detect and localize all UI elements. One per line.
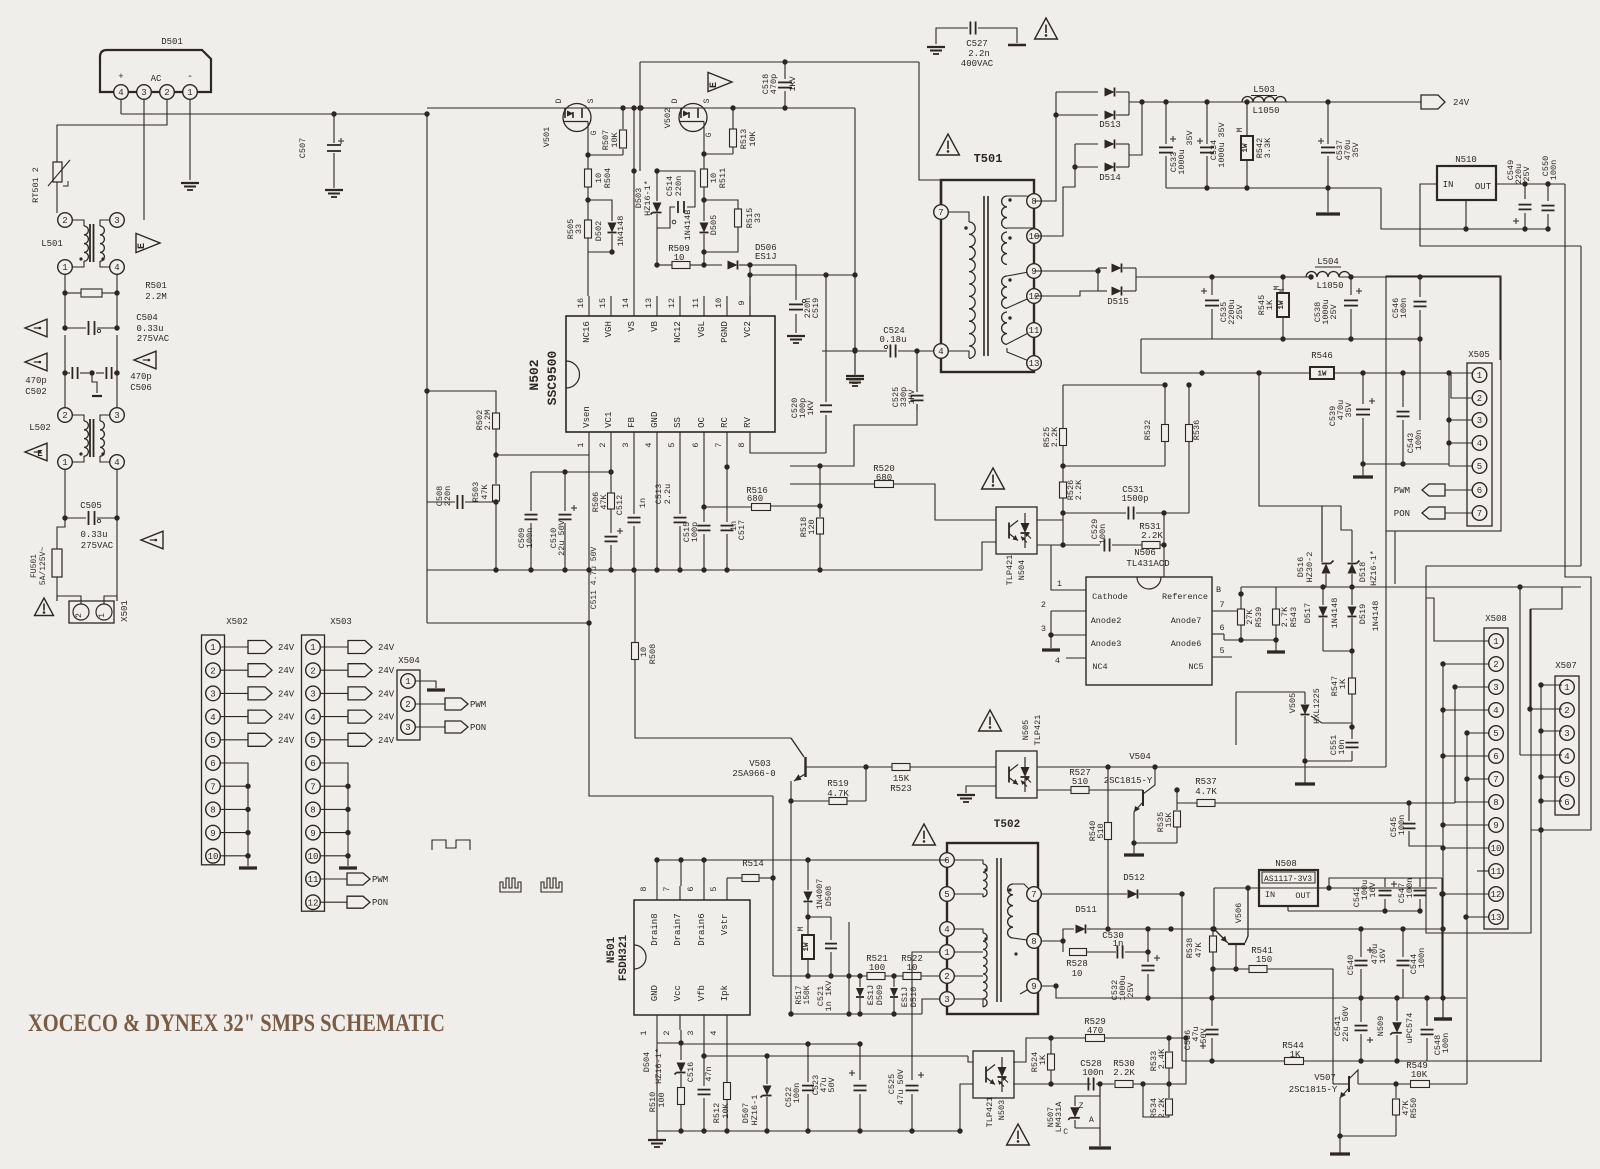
pin 7 [934, 205, 949, 220]
wire RV pin [750, 447, 826, 453]
wire pin4 [1449, 442, 1472, 444]
pin 16 NC16 [588, 296, 590, 316]
svg-text:5: 5 [667, 442, 677, 447]
wire [828, 973, 833, 978]
wire t502 pin9 [1041, 986, 1212, 998]
wire secondary gnd bus [1212, 338, 1420, 340]
svg-text:HZ16-1: HZ16-1 [750, 1095, 760, 1126]
svg-text:S: S [587, 98, 596, 103]
wire [56, 182, 58, 213]
svg-text:47K: 47K [480, 483, 490, 499]
svg-text:R528: R528 [1066, 959, 1088, 969]
svg-text:VGL: VGL [697, 321, 707, 337]
svg-text:5: 5 [1477, 462, 1482, 472]
warning triangle [982, 468, 1005, 489]
svg-text:G: G [590, 130, 599, 135]
svg-text:C519: C519 [811, 298, 821, 318]
wire pin13 [1466, 916, 1489, 918]
svg-text:2: 2 [405, 700, 410, 710]
pin 6 [940, 853, 955, 868]
ground bar [1316, 212, 1340, 215]
pin 15 VGH [610, 296, 612, 316]
pin 14 VS [633, 296, 635, 316]
svg-text:+: + [118, 72, 123, 82]
wire C525 return [790, 404, 917, 466]
pin 7 RC [726, 432, 728, 447]
svg-text:C502: C502 [25, 387, 47, 397]
pin 12 [1027, 289, 1042, 304]
svg-text:25V: 25V [1235, 303, 1245, 319]
svg-text:T501: T501 [974, 152, 1003, 166]
svg-text:10: 10 [1491, 844, 1502, 854]
svg-text:35V: 35V [1344, 401, 1354, 417]
svg-text:PON: PON [1394, 509, 1410, 519]
svg-text:275VAC: 275VAC [81, 541, 114, 551]
wire [116, 518, 118, 601]
svg-text:1n 1KV: 1n 1KV [824, 980, 834, 1012]
svg-text:X508: X508 [1485, 614, 1507, 624]
svg-text:2: 2 [1564, 706, 1569, 716]
wire emitter column [790, 781, 792, 1014]
pin 5 [940, 887, 955, 902]
pin 9 [1027, 264, 1042, 279]
svg-text:1W: 1W [1278, 300, 1286, 310]
wire drain bus [657, 859, 947, 861]
svg-text:100n: 100n [1082, 1068, 1104, 1078]
svg-text:TL431ACD: TL431ACD [1126, 559, 1169, 569]
svg-text:2: 2 [1477, 394, 1482, 404]
pin 4 [940, 922, 955, 937]
svg-text:2: 2 [210, 666, 215, 676]
svg-text:8: 8 [310, 806, 315, 816]
svg-text:XOCECO & DYNEX 32" SMPS SCHEMA: XOCECO & DYNEX 32" SMPS SCHEMATIC [28, 1010, 445, 1037]
svg-text:2.2M: 2.2M [483, 410, 493, 430]
svg-text:N504: N504 [1017, 560, 1027, 580]
svg-text:VB: VB [650, 321, 660, 332]
svg-text:N510: N510 [1455, 155, 1477, 165]
svg-text:3: 3 [310, 690, 315, 700]
svg-text:1: 1 [576, 442, 586, 447]
svg-text:C512: C512 [615, 495, 625, 515]
ground bar [1330, 1152, 1350, 1155]
warning triangle [25, 319, 47, 337]
svg-text:33: 33 [574, 224, 584, 234]
svg-text:5: 5 [1493, 729, 1498, 739]
svg-text:R539: R539 [1254, 607, 1264, 627]
wire [143, 218, 145, 220]
svg-text:9: 9 [737, 300, 747, 305]
svg-text:IN: IN [1443, 180, 1454, 190]
svg-text:25V: 25V [1522, 165, 1532, 181]
svg-text:2: 2 [598, 442, 608, 447]
svg-text:470p: 470p [25, 376, 47, 386]
svg-text:4: 4 [644, 442, 654, 447]
svg-text:5: 5 [944, 890, 949, 900]
svg-text:VGH: VGH [604, 321, 614, 337]
svg-text:1W: 1W [803, 942, 811, 952]
svg-text:7: 7 [1031, 890, 1036, 900]
ground [957, 794, 975, 796]
svg-text:2: 2 [164, 88, 169, 98]
svg-text:G: G [705, 132, 714, 137]
wire [634, 570, 636, 584]
wire [1164, 512, 1189, 514]
warning triangle [937, 134, 960, 155]
svg-text:V505: V505 [1288, 693, 1298, 713]
wire [791, 1013, 922, 1015]
svg-text:VC2: VC2 [743, 321, 753, 337]
wire [1520, 754, 1562, 756]
pin 4 [934, 344, 949, 359]
wire VC1 [531, 447, 611, 472]
svg-text:10: 10 [1072, 969, 1083, 979]
pin 2 [1051, 610, 1086, 612]
wire AC line [121, 113, 427, 115]
svg-text:35V: 35V [1185, 129, 1195, 145]
wire pin2 x507 [1530, 708, 1562, 710]
svg-text:6: 6 [1493, 752, 1498, 762]
svg-text:4: 4 [114, 458, 119, 468]
svg-text:7: 7 [662, 886, 672, 891]
svg-text:Vfb: Vfb [697, 985, 707, 1001]
24V tag [1421, 95, 1445, 109]
svg-text:1KV: 1KV [806, 399, 816, 415]
svg-text:Anode6: Anode6 [1171, 639, 1202, 649]
wire [1385, 531, 1387, 767]
wire VS rail [633, 108, 635, 171]
wire gnd bus X502 [220, 763, 248, 866]
svg-text:16V: 16V [1378, 947, 1388, 963]
svg-text:3: 3 [1041, 624, 1046, 634]
pin 1 [1066, 589, 1086, 591]
svg-text:N509: N509 [1376, 1016, 1386, 1036]
pin 2 VC1 [610, 432, 612, 447]
wire N510 gnd [1465, 200, 1467, 229]
svg-text:24V: 24V [278, 713, 295, 723]
ground bar [1089, 1146, 1111, 1149]
svg-text:OC: OC [697, 417, 707, 428]
pin 3 [1051, 634, 1086, 636]
svg-text:IN: IN [1265, 890, 1275, 900]
svg-text:15K: 15K [1164, 811, 1174, 827]
PWM tag [1422, 484, 1445, 496]
svg-text:R537: R537 [1195, 777, 1217, 787]
svg-text:10: 10 [1029, 232, 1040, 242]
pin 5 Vstr [726, 886, 728, 900]
wire [64, 335, 66, 408]
svg-text:10K: 10K [1411, 1070, 1428, 1080]
wire d512 branch [1179, 891, 1184, 896]
svg-text:100: 100 [657, 1092, 667, 1107]
warning triangle [913, 824, 936, 845]
svg-text:24V: 24V [378, 666, 395, 676]
svg-text:1K: 1K [1338, 678, 1348, 689]
svg-text:PGND: PGND [720, 321, 730, 343]
svg-text:12: 12 [667, 298, 677, 308]
wire GND pin [656, 447, 658, 570]
svg-text:25V: 25V [1329, 303, 1339, 319]
pin 9 VC2 [749, 296, 751, 316]
wire [1323, 650, 1352, 652]
wire [1455, 686, 1489, 688]
svg-text:Vsen: Vsen [582, 406, 592, 428]
svg-text:C505: C505 [80, 501, 102, 511]
wire D516 feed [1259, 373, 1322, 561]
wire [1213, 888, 1215, 929]
svg-text:100: 100 [869, 963, 885, 973]
svg-text:GND: GND [650, 985, 660, 1001]
svg-text:1: 1 [405, 677, 410, 687]
svg-text:V504: V504 [1129, 752, 1151, 762]
svg-text:N502: N502 [527, 359, 542, 390]
svg-text:6: 6 [691, 442, 701, 447]
svg-text:4: 4 [709, 1030, 719, 1035]
svg-text:100n: 100n [1441, 1033, 1451, 1053]
svg-text:AC: AC [151, 74, 162, 84]
wire [1305, 760, 1352, 762]
svg-text:FB: FB [627, 417, 637, 428]
svg-text:10K: 10K [610, 131, 620, 147]
svg-text:N505: N505 [1021, 720, 1031, 740]
svg-text:24V: 24V [378, 689, 395, 699]
svg-text:15: 15 [598, 298, 608, 308]
svg-text:Drain7: Drain7 [673, 913, 683, 945]
wire pin3 bus [1449, 419, 1472, 421]
svg-text:2.2u: 2.2u [663, 484, 673, 504]
svg-text:220n: 220n [674, 176, 684, 196]
pin 3 Vfb [703, 1015, 705, 1030]
PON tag [1422, 507, 1445, 519]
svg-text:-: - [187, 72, 193, 83]
svg-text:E: E [37, 449, 43, 459]
pin 9 [1027, 979, 1042, 994]
svg-text:7: 7 [1493, 775, 1498, 785]
svg-text:10: 10 [208, 852, 219, 862]
svg-text:2: 2 [662, 1030, 672, 1035]
svg-text:D501: D501 [161, 37, 183, 47]
svg-text:C: C [1063, 1128, 1068, 1137]
svg-text:12: 12 [1491, 890, 1502, 900]
wire pin2 [1451, 373, 1472, 398]
svg-text:1N4148: 1N4148 [1371, 601, 1381, 632]
svg-text:1: 1 [62, 263, 67, 273]
wire [1108, 928, 1443, 930]
wire pin1 x507 [1541, 684, 1562, 686]
svg-text:150K: 150K [803, 985, 812, 1004]
pin 11 VGL [703, 296, 705, 316]
svg-text:1: 1 [1564, 683, 1569, 693]
svg-text:6: 6 [1477, 486, 1482, 496]
svg-text:3: 3 [114, 216, 119, 226]
bar [1442, 997, 1444, 1018]
svg-text:M: M [1236, 127, 1245, 132]
svg-text:VC1: VC1 [604, 412, 614, 428]
svg-text:M: M [1273, 285, 1282, 290]
svg-text:N503: N503 [997, 1100, 1007, 1120]
wire [1443, 709, 1489, 711]
svg-text:5A/125V~: 5A/125V~ [39, 547, 48, 586]
wire vcc link [657, 1042, 681, 1044]
ground [1360, 461, 1365, 466]
svg-text:11: 11 [691, 298, 701, 308]
wire [426, 391, 428, 502]
pin 6 Drain6 [703, 886, 705, 900]
24V tag [320, 669, 348, 671]
wire [1430, 1083, 1467, 1085]
svg-text:1: 1 [1493, 637, 1498, 647]
svg-text:150: 150 [1256, 955, 1272, 965]
svg-text:3: 3 [1493, 683, 1498, 693]
svg-text:PWM: PWM [1394, 486, 1410, 496]
ground [181, 182, 199, 184]
svg-text:OUT: OUT [1295, 891, 1310, 901]
wire to pin12 [1441, 878, 1443, 894]
svg-text:V507: V507 [1314, 1073, 1336, 1083]
svg-text:100n: 100n [1414, 430, 1424, 450]
svg-text:X507: X507 [1555, 661, 1577, 671]
svg-text:NC12: NC12 [673, 321, 683, 343]
svg-text:D: D [555, 98, 564, 103]
connector D501 [100, 50, 211, 92]
svg-text:4: 4 [938, 347, 943, 357]
svg-text:2.2n: 2.2n [968, 49, 990, 59]
wire main rail [427, 107, 855, 109]
svg-text:R543: R543 [1289, 607, 1299, 627]
svg-text:1N414B: 1N414B [683, 210, 693, 241]
svg-text:22u 50V: 22u 50V [1341, 1005, 1351, 1042]
svg-text:24V: 24V [1453, 98, 1470, 108]
svg-text:2: 2 [310, 666, 315, 676]
pin 11 [1027, 323, 1042, 338]
svg-text:RC: RC [720, 417, 730, 428]
svg-text:100n: 100n [1417, 948, 1427, 968]
wire [189, 99, 191, 180]
24V tag [320, 692, 348, 694]
svg-text:0.33u: 0.33u [80, 530, 107, 540]
warning triangle [25, 353, 47, 371]
svg-text:3: 3 [1564, 729, 1569, 739]
svg-text:24V: 24V [278, 666, 295, 676]
svg-text:100n: 100n [792, 1083, 802, 1103]
ground [325, 189, 343, 191]
svg-text:E: E [709, 82, 720, 88]
wire [1467, 732, 1489, 734]
svg-text:1n: 1n [638, 498, 648, 508]
svg-text:100n: 100n [1399, 298, 1409, 318]
svg-text:220n: 220n [443, 486, 453, 506]
svg-text:B: B [1216, 585, 1221, 595]
svg-text:2: 2 [75, 613, 84, 618]
svg-text:24V: 24V [378, 736, 395, 746]
heatsink [432, 840, 470, 850]
pin 10 [1027, 229, 1042, 244]
svg-text:0.33u: 0.33u [136, 324, 163, 334]
svg-text:L1050: L1050 [1316, 281, 1343, 291]
svg-text:10K: 10K [748, 130, 758, 146]
svg-text:3: 3 [405, 723, 410, 733]
warning triangle [35, 598, 54, 616]
24V tag [220, 692, 248, 694]
svg-text:8: 8 [1031, 197, 1036, 207]
svg-text:12: 12 [308, 898, 319, 908]
svg-text:9: 9 [1031, 982, 1036, 992]
svg-text:D515: D515 [1107, 297, 1129, 307]
wire pin1 T502 [912, 952, 940, 1080]
pin 8 [1027, 194, 1042, 209]
svg-text:4: 4 [944, 925, 949, 935]
pin 7 Drain7 [679, 886, 681, 900]
wire pin5 x507 [1541, 776, 1562, 778]
svg-text:24V: 24V [278, 736, 295, 746]
svg-text:2.2M: 2.2M [145, 292, 167, 302]
wire [1519, 587, 1521, 755]
svg-text:35V: 35V [1217, 121, 1227, 137]
svg-text:12: 12 [1029, 292, 1040, 302]
24V tag [220, 716, 248, 718]
svg-text:8: 8 [1031, 937, 1036, 947]
wire [143, 99, 145, 218]
svg-text:7: 7 [938, 208, 943, 218]
wire gnd rail [657, 1130, 960, 1132]
bar [1442, 998, 1444, 1018]
svg-text:Anode2: Anode2 [1091, 616, 1122, 626]
wire [1235, 692, 1237, 745]
wire [968, 1056, 973, 1062]
svg-text:35V: 35V [1351, 141, 1361, 157]
svg-text:C517: C517 [737, 520, 747, 540]
svg-text:50V: 50V [827, 1076, 837, 1092]
wire vfb link [704, 1055, 968, 1057]
svg-text:7: 7 [310, 782, 315, 792]
svg-text:13: 13 [1491, 913, 1502, 923]
svg-text:PON: PON [470, 723, 486, 733]
svg-text:2: 2 [1493, 660, 1498, 670]
svg-text:1: 1 [944, 948, 949, 958]
svg-text:X504: X504 [398, 656, 420, 666]
svg-text:4: 4 [114, 263, 119, 273]
24V tag [220, 669, 248, 671]
svg-text:1: 1 [62, 458, 67, 468]
svg-text:V502: V502 [663, 108, 673, 128]
svg-text:0.18u: 0.18u [879, 335, 906, 345]
svg-text:M: M [797, 926, 806, 931]
wire gate V501 [587, 122, 589, 156]
wire opto gnd [960, 1084, 973, 1131]
wire [427, 391, 496, 412]
svg-text:6: 6 [1219, 623, 1224, 633]
svg-text:3: 3 [686, 1030, 696, 1035]
svg-text:TLP421: TLP421 [985, 1097, 995, 1128]
wire pin1 [1426, 598, 1489, 641]
wire pin11 [1477, 870, 1489, 872]
ground [1224, 639, 1276, 641]
svg-text:2.2K: 2.2K [1074, 479, 1084, 500]
pin 12 NC12 [679, 296, 681, 316]
svg-text:24V: 24V [378, 713, 395, 723]
24V tag [220, 739, 248, 741]
svg-text:2.2K: 2.2K [1141, 531, 1163, 541]
wire [1540, 1061, 1542, 1062]
svg-text:SS: SS [673, 417, 683, 428]
svg-text:D: D [671, 98, 680, 103]
svg-text:24V: 24V [278, 689, 295, 699]
pin 5 [1212, 656, 1232, 658]
ground [1050, 611, 1052, 648]
wire [848, 922, 850, 1014]
wire C519 area link [796, 274, 855, 276]
pin 8 RV [749, 432, 751, 447]
svg-text:3: 3 [141, 88, 146, 98]
